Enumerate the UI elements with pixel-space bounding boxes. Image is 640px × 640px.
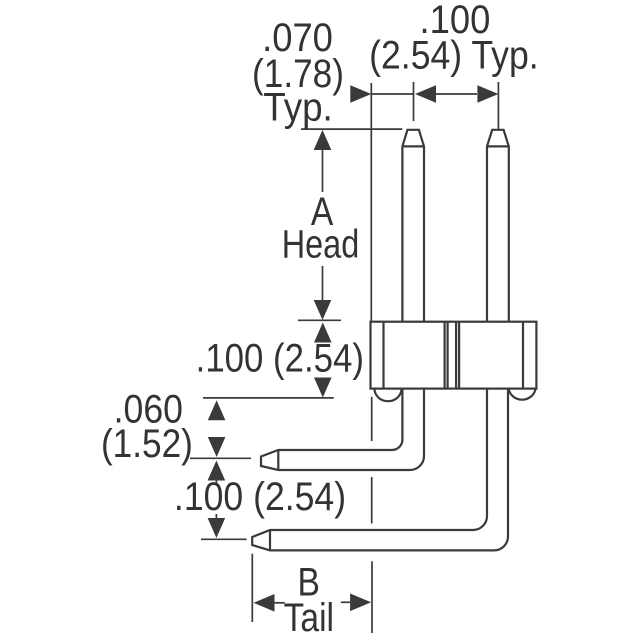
- extension line body-left lower segments: [371, 397, 373, 441]
- arrow .060 down-pointing: [208, 437, 226, 457]
- tick upper tail level: [190, 457, 251, 459]
- svg-text:Head: Head: [282, 221, 359, 266]
- pin 2 tail (bent right-angle pin, lower): [252, 389, 508, 551]
- seating plane line: [203, 397, 334, 399]
- arrow .060 up-pointing: [208, 400, 226, 420]
- pin 1 tail (bent right-angle pin, upper): [261, 389, 424, 470]
- extension line body-left (x=371.3) upper: [370, 83, 372, 322]
- insulator body: [371, 322, 537, 389]
- arrow .100 right-pointing: [477, 85, 498, 103]
- arrow .100 tail up-pointing: [208, 461, 226, 481]
- tick body top level: [298, 319, 341, 321]
- extension line B left (tail tip): [251, 554, 253, 622]
- arrow A Head down-pointing: [314, 300, 332, 320]
- svg-text:(1.52): (1.52): [101, 421, 193, 466]
- svg-text:Typ.: Typ.: [263, 85, 333, 130]
- dimension line B right stub: [341, 601, 350, 603]
- dimension line stub upper: [215, 478, 217, 484]
- arrow A Head up-pointing: [314, 130, 332, 150]
- tick lower tail level: [201, 538, 247, 540]
- body foot right (standoff bump): [509, 389, 536, 400]
- arrow .070 right-pointing: [350, 85, 371, 103]
- dimension line .100 top: [436, 93, 477, 95]
- pin 2 head (vertical pin, right): [487, 130, 509, 322]
- dimension line B left stub: [275, 602, 285, 604]
- dimension line A Head upper: [322, 149, 324, 192]
- arrow .100 body up-pointing: [314, 323, 332, 343]
- arrow B right-pointing: [350, 594, 371, 612]
- body foot left (standoff bump): [375, 389, 402, 402]
- svg-text:.100 (2.54): .100 (2.54): [196, 335, 364, 380]
- extension line pin1 center (x=413.5): [413, 82, 415, 121]
- dimension line .070 top: [371, 93, 413, 95]
- pin 1 head (vertical pin, left): [402, 130, 424, 322]
- arrow .100 body down-pointing: [314, 378, 332, 398]
- extension line pin2 center (x=497.9): [497, 82, 499, 130]
- arrow B left-pointing: [254, 594, 275, 612]
- tick pin tip level: [301, 128, 402, 130]
- arrow .100 left-pointing: [415, 85, 436, 103]
- dimension line stub lower: [215, 514, 217, 520]
- svg-text:(2.54) Typ.: (2.54) Typ.: [369, 34, 539, 78]
- dimension line A Head lower: [322, 266, 324, 301]
- arrow .100 tail down-pointing: [208, 518, 226, 538]
- svg-text:Tail: Tail: [284, 595, 334, 639]
- svg-text:.100 (2.54): .100 (2.54): [174, 475, 346, 519]
